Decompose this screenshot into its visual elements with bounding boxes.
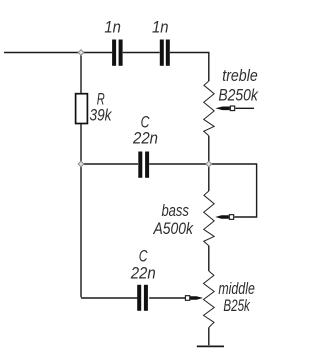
svg-text:22n: 22n bbox=[130, 264, 156, 282]
svg-text:B250k: B250k bbox=[218, 87, 258, 105]
svg-text:bass: bass bbox=[161, 202, 189, 220]
svg-text:1n: 1n bbox=[104, 19, 121, 37]
svg-text:A500k: A500k bbox=[153, 220, 194, 238]
svg-text:C: C bbox=[139, 247, 148, 265]
svg-text:39k: 39k bbox=[90, 107, 113, 125]
svg-text:middle: middle bbox=[218, 280, 255, 298]
svg-text:R: R bbox=[97, 90, 105, 108]
svg-text:22n: 22n bbox=[132, 130, 158, 148]
svg-text:1n: 1n bbox=[152, 19, 169, 37]
svg-text:treble: treble bbox=[222, 67, 258, 85]
svg-text:B25k: B25k bbox=[223, 297, 250, 315]
